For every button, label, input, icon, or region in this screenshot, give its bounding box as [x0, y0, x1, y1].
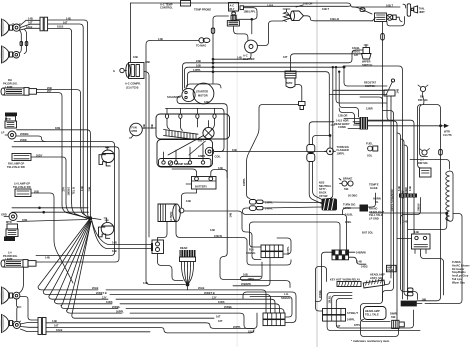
FUEL SOL — [366, 141, 378, 157]
long run 20DETB to loops — [110, 295, 271, 314]
svg-text:18LB: 18LB — [57, 25, 63, 29]
svg-text:TELLTALE SW: TELLTALE SW — [7, 165, 25, 169]
ignition block lower — [157, 140, 213, 168]
svg-text:14B: 14B — [403, 220, 408, 224]
fanout wire to 20DBL run — [61, 221, 118, 308]
RH park lamp cylinder — [1, 88, 37, 96]
svg-text:16B: 16B — [196, 64, 201, 68]
dark connector bar right — [399, 194, 417, 198]
wire park 20B — [37, 90, 81, 202]
wire junction to horn plus — [92, 218, 107, 220]
bundle rotated label TELB — [72, 187, 76, 195]
weave drop NSS feed — [327, 67, 333, 198]
horn upper — [99, 147, 114, 166]
vertical feed x213 — [213, 16, 229, 84]
svg-text:MTR: MTR — [6, 220, 12, 224]
HORN RELAY box — [412, 234, 431, 249]
wire 14PPL solenoid loop to flasher — [188, 72, 331, 136]
fanout wire to 20PPL run — [67, 222, 123, 314]
svg-text:16T: 16T — [336, 324, 341, 328]
svg-text:TURN SIG: TURN SIG — [343, 202, 355, 206]
svg-text:HEADLAMP: HEADLAMP — [370, 272, 385, 276]
wire 14B right vertical down — [220, 240, 262, 280]
svg-text:16T: 16T — [218, 319, 223, 323]
svg-text:BLOWER: BLOWER — [243, 57, 255, 61]
long run 20LB to loops — [106, 290, 266, 313]
weave drop d1 — [336, 67, 387, 103]
svg-text:12B: 12B — [210, 228, 215, 232]
svg-text:MOTOR: MOTOR — [198, 93, 208, 97]
svg-text:RH: RH — [8, 78, 12, 82]
wire tank line down — [382, 22, 384, 104]
svg-text:14B: 14B — [237, 56, 242, 60]
LH LAMP GP TELLTALE SW box — [15, 189, 31, 197]
wire checkered right 24BRW — [349, 251, 356, 253]
wire alt top to bat — [182, 189, 197, 208]
wire horn relay down — [421, 255, 444, 295]
headlamp connector C2 — [38, 318, 46, 335]
wire bulb jumper — [19, 29, 26, 53]
junction dots on feed — [212, 62, 215, 65]
svg-text:16PPL: 16PPL — [242, 178, 246, 186]
wire 16BL run — [253, 222, 340, 250]
svg-text:* indicates nonfactory item: * indicates nonfactory item — [351, 339, 390, 343]
turn sig capsule upper — [307, 145, 315, 153]
lower terminal 3 — [188, 161, 191, 164]
svg-text:16B: 16B — [422, 297, 427, 301]
wire bar loop — [401, 198, 421, 225]
svg-text:SIGNAL: SIGNAL — [246, 251, 256, 255]
solenoid connector small — [299, 102, 306, 110]
right bundle v2 — [390, 101, 392, 278]
wire right edge down — [430, 214, 462, 304]
lower terminal 1 — [162, 161, 165, 164]
bundle wire 16T down to junction — [83, 201, 89, 218]
svg-text:20Y: 20Y — [62, 187, 66, 192]
RH LAMP GP TELLTALE SW box — [12, 154, 31, 161]
fanout wire to 20DETB run — [43, 220, 102, 295]
svg-text:20 DBG: 20 DBG — [348, 193, 357, 197]
rotated label 14PPL SOLENOID — [390, 189, 394, 211]
svg-text:PK.DIR.SIG.: PK.DIR.SIG. — [3, 81, 18, 85]
wire rear body to turn pair — [309, 122, 359, 144]
svg-text:14B: 14B — [414, 230, 419, 234]
RH shlf mtr unit — [5, 113, 17, 129]
TO MAG sender — [196, 38, 210, 48]
wire 22Y lh with junction — [12, 211, 89, 213]
svg-text:FUEL: FUEL — [366, 141, 373, 145]
HEADLAMP TELL TALE rounded box — [364, 307, 387, 320]
svg-text:14LS HDR: 14LS HDR — [336, 118, 349, 122]
svg-text:G: G — [113, 69, 115, 73]
wire junction to block 14B — [92, 220, 152, 245]
svg-text:15RPL: 15RPL — [337, 152, 345, 156]
svg-text:14 PPL: 14 PPL — [286, 246, 290, 255]
arrow head — [444, 124, 449, 128]
svg-text:16B.T: 16B.T — [386, 3, 393, 7]
svg-text:ASSY. SW.: ASSY. SW. — [370, 276, 383, 280]
wire long y66 to right vertical — [344, 66, 402, 299]
wire 16B.OR top right — [296, 5, 303, 7]
junction dot d2 — [338, 71, 340, 73]
svg-text:18LBL: 18LBL — [328, 295, 332, 303]
ALTERNATOR — [158, 204, 184, 222]
DIST distributor — [198, 124, 214, 143]
svg-text:14B: 14B — [396, 89, 400, 94]
wire tank loop lower — [387, 17, 405, 26]
svg-text:(CLUTCH): (CLUTCH) — [126, 85, 139, 89]
svg-text:Dir Heater: Dir Heater — [452, 267, 464, 271]
A-C BLOWER — [243, 40, 257, 61]
bottom right connector cluster — [323, 309, 346, 322]
bead on vertical — [381, 34, 385, 41]
label 14B rotated — [286, 246, 290, 255]
wire junction block down — [158, 254, 184, 281]
lower terminal 4 — [201, 161, 204, 164]
junction dot arc — [343, 66, 346, 69]
svg-text:20BR/W: 20BR/W — [241, 282, 251, 286]
bundle wire 20Y down to junction — [62, 205, 88, 218]
right bundle v4 — [368, 121, 397, 310]
svg-text:Wiper Gau: Wiper Gau — [452, 280, 465, 284]
wire alt 12B right — [184, 211, 261, 260]
junction block lower left — [151, 240, 164, 254]
WTR TEMP sender — [285, 71, 296, 88]
svg-text:14B: 14B — [229, 213, 233, 218]
svg-text:RLY: RLY — [230, 7, 235, 11]
svg-text:L.H.: L.H. — [284, 292, 289, 296]
svg-text:WTR: WTR — [444, 129, 450, 133]
terminal risers — [167, 108, 215, 114]
svg-text:TEL B: TEL B — [72, 187, 76, 195]
svg-text:TEMP PROBE: TEMP PROBE — [194, 7, 211, 11]
svg-text:RH: RH — [420, 94, 424, 98]
RH signal loop wires below — [277, 238, 291, 254]
rotated label 20B/W — [417, 203, 421, 211]
wire node to run — [187, 286, 189, 290]
svg-text:14PPL: 14PPL — [265, 207, 273, 211]
wire wtr riser to wiper 2 — [291, 54, 360, 60]
wires fan from connector to node — [182, 265, 194, 284]
svg-text:A-C: A-C — [243, 53, 248, 57]
right bundle v5 — [397, 133, 401, 288]
bundle wire telltale down to junction — [66, 203, 89, 219]
svg-text:SW.: SW. — [344, 187, 349, 191]
svg-text:20PPL: 20PPL — [233, 325, 241, 329]
hook two — [339, 108, 359, 124]
svg-text:NSS: NSS — [319, 180, 325, 184]
junction dot d1 — [335, 66, 337, 68]
svg-text:1PPL: 1PPL — [354, 323, 361, 327]
wire alt bottom to junction block — [158, 222, 168, 243]
wire second top line — [244, 5, 351, 6]
wire pair down to NSS — [309, 162, 325, 204]
wire 20BR/W loop — [233, 258, 270, 286]
svg-text:BATTERY: BATTERY — [195, 184, 207, 188]
svg-text:24DG: 24DG — [361, 264, 368, 268]
diag wire in lower block — [164, 136, 206, 161]
wire relay right 18B/LPPL — [236, 8, 257, 20]
wire AC line down-left — [130, 3, 132, 62]
wire battery pos right — [211, 170, 227, 179]
wire cluster bottom — [327, 310, 420, 331]
svg-text:18B: 18B — [204, 100, 209, 104]
KEY HOT striped cable — [337, 282, 361, 287]
diagonal to ALT box — [352, 7, 376, 21]
wire rheostat down — [387, 96, 394, 121]
wire fan to block — [142, 127, 156, 129]
svg-text:ALTNTR: ALTNTR — [169, 211, 173, 221]
svg-text:R.H.: R.H. — [249, 248, 254, 252]
LH DIR SIG — [418, 149, 430, 165]
wire blob to horn relay — [368, 120, 414, 234]
vertical pair 16B — [144, 72, 149, 238]
wire headlamp hi to connector — [20, 20, 40, 30]
wire hl feed 18LB — [48, 28, 72, 203]
wire 20DBG lh with junction — [12, 207, 88, 209]
BRAKE SW — [339, 176, 353, 191]
wire blower to feed — [213, 53, 251, 59]
svg-text:TELL TALE: TELL TALE — [365, 312, 379, 316]
svg-text:SOL: SOL — [367, 153, 373, 157]
wire cluster left loop — [316, 267, 327, 312]
terminal 1 — [165, 114, 168, 118]
junction dot NSS drop — [332, 66, 334, 68]
svg-text:1DB: 1DB — [22, 218, 27, 222]
svg-text:A-C COMPR.: A-C COMPR. — [125, 82, 141, 86]
wire bulb jumper lower — [17, 299, 22, 321]
headlamp RH upper bulb socket — [13, 24, 20, 32]
bundle wire 14B down to junction — [88, 200, 89, 217]
junction dot — [38, 207, 41, 210]
svg-text:LAMP: LAMP — [5, 257, 13, 261]
rotated label 14B right — [229, 213, 233, 218]
svg-text:14B: 14B — [66, 16, 71, 20]
wire sol conn up — [295, 85, 302, 102]
rotated label 16BR — [404, 187, 408, 194]
AMP GAGE box — [387, 265, 397, 272]
wire junction to blower loop — [251, 19, 253, 34]
svg-text:MTR: MTR — [5, 117, 11, 121]
blob connector upper — [360, 117, 369, 130]
mid-right checkered connector — [332, 250, 349, 260]
svg-text:SFTY -: SFTY - — [319, 187, 327, 191]
wire 16B.LB run — [304, 16, 373, 21]
svg-text:SWITCH: SWITCH — [365, 84, 375, 88]
wire 12BR rail — [360, 97, 383, 107]
svg-text:COIL: COIL — [215, 155, 222, 159]
wire 20B lh telltale — [31, 193, 73, 283]
wire loop top to radio box — [418, 105, 422, 169]
bead connector on diagonal — [360, 8, 365, 11]
svg-text:MTR: MTR — [132, 129, 138, 133]
svg-text:12B.OR: 12B.OR — [338, 114, 347, 118]
svg-text:20DBG: 20DBG — [20, 132, 29, 136]
svg-text:TO MAG: TO MAG — [196, 43, 206, 47]
wire checkered left drop — [316, 252, 333, 301]
RH side lamp — [5, 131, 16, 139]
gauge X circle — [387, 14, 396, 20]
wire blower right up — [257, 21, 283, 46]
svg-text:Inst/Lps Ctsy: Inst/Lps Ctsy — [452, 274, 469, 278]
svg-text:HORN: HORN — [373, 196, 381, 200]
long run 20DBL — [126, 309, 284, 314]
bundle rotated label 16DBG — [67, 187, 71, 196]
wire wtr temp up — [290, 60, 292, 71]
svg-text:16B.LB: 16B.LB — [330, 17, 339, 21]
svg-text:LIGHT SW: LIGHT SW — [402, 303, 414, 306]
bundle rotated label 14B — [80, 186, 84, 191]
rotated label 12B — [142, 124, 146, 129]
long run 10DS — [120, 304, 280, 313]
svg-text:16DBG: 16DBG — [67, 187, 71, 196]
wire coil to flasher — [214, 151, 327, 153]
bundle rotated label 20B — [88, 187, 92, 192]
wire 12B.OR into blob — [344, 118, 360, 120]
BATTERY — [192, 177, 217, 190]
NSS hatched connector — [322, 199, 338, 211]
headlamp RH lower (cone) — [1, 46, 13, 63]
fuse below relay — [231, 12, 236, 20]
right bundle v3 — [383, 111, 394, 288]
horn relay pins — [415, 249, 426, 255]
wire 16B solenoid loop to rheostat — [185, 67, 388, 89]
svg-text:16B: 16B — [243, 273, 248, 277]
svg-text:CONTROL: CONTROL — [160, 6, 173, 10]
wire lamp to connector — [20, 297, 38, 332]
svg-text:CLUTS: CLUTS — [443, 133, 452, 137]
svg-text:REAR: REAR — [180, 246, 187, 250]
wire gauge to tank — [396, 4, 406, 17]
svg-text:18DG: 18DG — [248, 277, 255, 281]
blower resistor cylinder — [291, 11, 304, 21]
svg-text:18LBL: 18LBL — [352, 46, 360, 50]
TANK UNIT connector — [407, 4, 417, 16]
wire to horn relay left — [397, 238, 412, 240]
junction dot — [251, 18, 254, 21]
RH DIR SIG — [418, 85, 428, 105]
rotated label 20DBL — [318, 289, 322, 298]
junction dot — [42, 211, 45, 214]
svg-text:GRD: GRD — [1, 213, 7, 217]
junction dot blower feed — [212, 58, 215, 61]
svg-text:BAT SOL: BAT SOL — [362, 230, 374, 234]
svg-text:18LB: 18LB — [56, 328, 62, 332]
svg-text:20DY: 20DY — [36, 153, 43, 157]
bead on loop edge — [439, 150, 443, 156]
RH SIGNAL connector — [261, 245, 283, 258]
svg-text:SOLENOID: SOLENOID — [167, 95, 181, 99]
bundle wire 20B down to junction — [81, 202, 90, 218]
svg-text:10DS: 10DS — [106, 300, 113, 304]
svg-text:11B: 11B — [112, 249, 117, 253]
tall loop rect — [417, 105, 441, 301]
ALT TEM box — [375, 13, 387, 22]
junction dot flasher — [329, 134, 332, 137]
bundle rotated label 20Y — [62, 187, 66, 192]
label TEMP SDR — [168, 161, 189, 166]
wire hl feed 14B — [48, 20, 88, 200]
svg-text:20B: 20B — [88, 187, 92, 192]
top line AC temp control — [131, 3, 401, 7]
vertical pair 12B down-left — [146, 41, 185, 285]
wire telltale bottom — [361, 320, 399, 337]
svg-text:14B: 14B — [408, 186, 412, 191]
inline connector bead pair — [408, 288, 413, 292]
headlamp LH lower bulb — [13, 321, 21, 329]
wire 1DB lh — [17, 220, 87, 222]
wire 22Y horn feed — [12, 147, 119, 262]
svg-text:18T: 18T — [354, 53, 359, 57]
headlamp LH upper cone — [1, 287, 13, 304]
svg-text:WIPER: WIPER — [362, 59, 371, 63]
svg-text:Tail Lps: Tail Lps — [452, 277, 462, 281]
svg-text:DIR SIG: DIR SIG — [418, 161, 428, 165]
svg-text:BACK: BACK — [319, 191, 327, 195]
svg-text:20DB: 20DB — [20, 138, 27, 142]
svg-text:LP GND: LP GND — [369, 217, 379, 221]
wire starter 18B bottom — [177, 96, 227, 240]
svg-text:TELLTALE SW: TELLTALE SW — [13, 185, 31, 189]
svg-text:18B/LPPL: 18B/LPPL — [244, 10, 257, 14]
svg-text:GAGE: GAGE — [387, 269, 394, 272]
svg-text:18B/S: 18B/S — [198, 154, 205, 158]
wire checkered right 14B — [349, 257, 367, 264]
lower terminal 2 — [174, 161, 177, 164]
svg-text:12B: 12B — [143, 281, 148, 285]
svg-text:AMP: AMP — [387, 266, 393, 269]
terminal 3 — [196, 114, 199, 118]
wire 16T bottom run — [46, 327, 250, 333]
svg-text:24PPL: 24PPL — [347, 318, 355, 322]
svg-text:16T: 16T — [54, 324, 59, 328]
rotated label 14B — [397, 186, 401, 191]
svg-text:16B.OR: 16B.OR — [303, 2, 312, 6]
svg-text:16T: 16T — [283, 55, 288, 59]
svg-text:20DBL: 20DBL — [224, 305, 233, 309]
wire solenoid top loop — [186, 84, 221, 89]
AC temp control unit — [181, 1, 191, 7]
wire 20DB — [14, 142, 115, 256]
svg-text:14B: 14B — [397, 186, 401, 191]
svg-text:NEUTRAL: NEUTRAL — [319, 184, 332, 188]
svg-text:WTR: WTR — [287, 81, 293, 85]
wire hl feed 16T — [48, 24, 84, 201]
turn sig capsule lower — [307, 154, 315, 162]
svg-text:14PPL SOLENOID: 14PPL SOLENOID — [390, 189, 394, 211]
svg-text:12Y: 12Y — [212, 296, 217, 300]
junction dot coil — [445, 212, 448, 215]
svg-text:FUSES: FUSES — [452, 260, 461, 264]
wire capsule lower loop left — [243, 208, 347, 250]
NSS capsule connector lower — [250, 206, 264, 211]
wire 14B into blob — [356, 123, 360, 125]
wire 16BL loop to RH connector — [250, 222, 261, 247]
ignition block upper — [156, 114, 230, 139]
svg-text:HEADLAMP: HEADLAMP — [365, 309, 380, 313]
legend FUSES — [452, 260, 470, 284]
rotated label 14B2 — [408, 186, 412, 191]
wire light sw to right loop — [417, 302, 430, 304]
svg-text:20B: 20B — [34, 189, 39, 193]
wire left long to dimmer — [361, 300, 391, 322]
TURN SIG FLASHER — [325, 145, 349, 156]
svg-text:16B: 16B — [133, 55, 138, 59]
svg-text:14PPL: 14PPL — [193, 68, 201, 72]
hooks from left rails — [355, 108, 359, 118]
right main vertical from gauge — [382, 104, 384, 108]
wire rheostat row2 — [333, 89, 387, 91]
